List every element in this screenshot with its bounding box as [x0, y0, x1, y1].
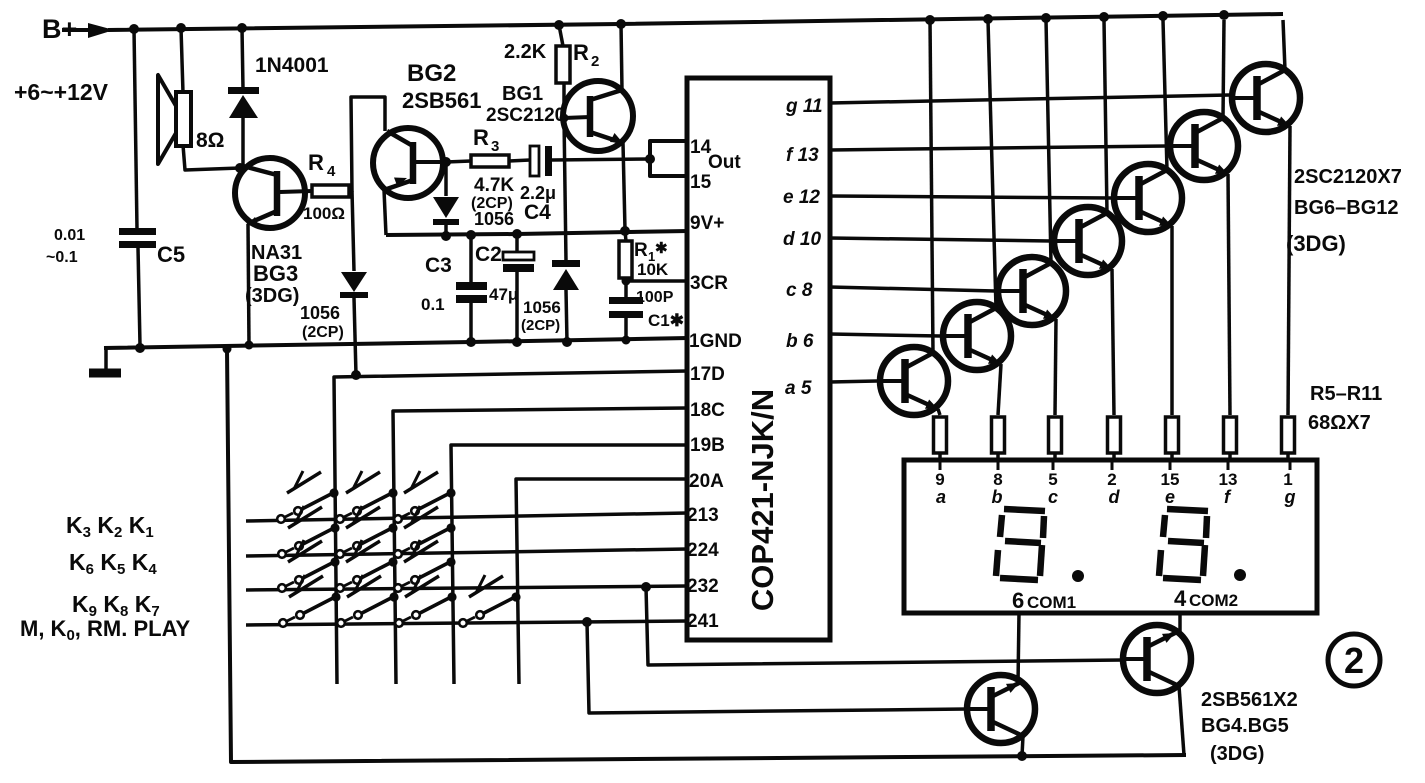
- switch RM: [395, 575, 456, 627]
- transistor BG3 NA31: [235, 158, 312, 345]
- wire collector of BG11: [1223, 20, 1224, 118]
- svg-text:2SB561: 2SB561: [402, 88, 482, 113]
- svg-text:232: 232: [687, 576, 719, 597]
- svg-text:2.2K: 2.2K: [504, 41, 547, 63]
- transistor BG6 2SC2120: [880, 347, 948, 415]
- switch M: [279, 575, 340, 627]
- transistor BG4 2SB561: [967, 675, 1035, 743]
- svg-text:2SC2120X7: 2SC2120X7: [1294, 166, 1402, 188]
- svg-text:4: 4: [1174, 586, 1187, 611]
- wire ground rail: [104, 338, 688, 348]
- transistor BG5 2SB561: [1123, 625, 1191, 693]
- wire collector of BG9: [1104, 20, 1107, 213]
- wire segment d base line: [830, 238, 1051, 241]
- wire C5 branch: [134, 29, 140, 345]
- wire 20A feed to key column: [516, 479, 687, 684]
- resistor R1* 10K: [619, 231, 669, 281]
- svg-text:(2CP): (2CP): [302, 324, 344, 341]
- transistor BG8 2SC2120: [998, 257, 1066, 325]
- svg-text:e 12: e 12: [783, 187, 820, 208]
- svg-text:f 13: f 13: [786, 145, 819, 166]
- display digit 2: [1159, 509, 1208, 580]
- transistor BG12 2SC2120: [1232, 64, 1300, 132]
- svg-text:3: 3: [491, 138, 499, 155]
- svg-text:1056: 1056: [523, 298, 561, 317]
- transistor BG10 2SC2120: [1114, 164, 1182, 232]
- svg-text:(3DG): (3DG): [245, 285, 299, 307]
- svg-text:(3DG): (3DG): [1286, 231, 1346, 256]
- svg-text:C3: C3: [425, 254, 452, 277]
- svg-text:241: 241: [687, 611, 719, 632]
- svg-text:2.2μ: 2.2μ: [520, 183, 556, 203]
- svg-text:~0.1: ~0.1: [46, 249, 78, 266]
- transistor BG1 2SC2120: [486, 24, 633, 230]
- wire emitter of BG10: [1170, 226, 1174, 415]
- wire collector of BG7: [988, 20, 996, 308]
- wire emitter of BG11: [1228, 174, 1230, 415]
- svg-text:3CR: 3CR: [690, 273, 728, 294]
- svg-text:100P: 100P: [636, 289, 674, 306]
- wire 1N4001 branch: [242, 28, 243, 168]
- capacitor C3 0.1: [421, 235, 487, 342]
- switch K8: [336, 540, 397, 592]
- svg-text:6: 6: [1012, 588, 1024, 613]
- switch K7: [278, 540, 339, 592]
- diode 1056 below BG2 base: [433, 162, 459, 236]
- svg-text:R5–R11: R5–R11: [1310, 383, 1382, 405]
- svg-text:c: c: [1048, 487, 1058, 507]
- node 9V+ junctions: [441, 226, 630, 241]
- svg-text:b: b: [992, 487, 1003, 507]
- wire emitter of BG6: [938, 409, 940, 415]
- svg-text:COP421-NJK/N: COP421-NJK/N: [745, 389, 780, 611]
- wire segment g base line: [830, 95, 1229, 103]
- node COM labels: [1012, 586, 1238, 613]
- switch K4: [278, 506, 339, 558]
- transistor BG9 2SC2120: [1054, 207, 1122, 275]
- svg-text:0.01: 0.01: [54, 227, 85, 244]
- svg-text:d 10: d 10: [783, 229, 821, 250]
- resistor R2 2.2K: [504, 25, 599, 118]
- svg-text:✱: ✱: [655, 240, 668, 257]
- svg-text:R: R: [634, 240, 648, 261]
- resistor R8 68ohm: [1108, 417, 1121, 461]
- wire COM1 to BG4: [1018, 613, 1019, 684]
- wire 18C feed to key column: [393, 408, 687, 684]
- wire collector of BG8: [1046, 20, 1051, 263]
- svg-text:2: 2: [1344, 640, 1364, 681]
- node figure number 2: [1328, 634, 1380, 686]
- svg-text:1GND: 1GND: [689, 331, 742, 352]
- wire emitter of BG12: [1288, 126, 1290, 415]
- transistor BG2 2SB561: [373, 60, 482, 235]
- diode 1N4001: [228, 54, 329, 118]
- capacitor C1* 100P: [609, 281, 684, 340]
- svg-text:R: R: [473, 125, 489, 150]
- svg-text:e: e: [1165, 487, 1175, 507]
- svg-text:2SB561X2: 2SB561X2: [1201, 689, 1298, 711]
- capacitor C4 2.2u: [520, 146, 650, 224]
- wire 19B feed to key column: [451, 445, 687, 684]
- display decimal point 2: [1234, 569, 1246, 581]
- svg-text:K3 K2 K1: K3 K2 K1: [66, 512, 154, 541]
- svg-text:BG2: BG2: [407, 60, 456, 87]
- wire left return and bottom rail: [227, 349, 1186, 762]
- wire key row 241: [246, 621, 687, 625]
- resistor R7 68ohm: [1049, 417, 1062, 461]
- node IC right pin labels: [783, 96, 823, 399]
- wire key row 213: [246, 513, 687, 521]
- resistor R9 68ohm: [1166, 417, 1179, 461]
- wire key row 224: [246, 549, 687, 556]
- switch K5: [336, 506, 397, 558]
- switch K1: [277, 471, 338, 523]
- node display pin numbers: [935, 470, 1295, 507]
- svg-text:b 6: b 6: [786, 331, 814, 352]
- wire emitter of BG9: [1112, 269, 1114, 415]
- node diode junction on 17D feed: [351, 370, 361, 380]
- transistor BG7 2SC2120: [943, 302, 1011, 370]
- svg-text:(3DG): (3DG): [1210, 743, 1264, 765]
- svg-text:2: 2: [591, 53, 599, 70]
- node key labels: [20, 512, 190, 644]
- node rail junctions: [129, 10, 1229, 34]
- wire segment a base line: [830, 381, 877, 382]
- svg-text:C5: C5: [157, 242, 185, 267]
- svg-text:BG1: BG1: [502, 83, 543, 105]
- wire speaker branch: [181, 28, 240, 170]
- wire segment b base line: [830, 334, 940, 336]
- node display pin stubs: [940, 460, 1290, 470]
- svg-text:20A: 20A: [689, 471, 724, 492]
- svg-text:c 8: c 8: [786, 280, 813, 301]
- svg-text:15: 15: [690, 172, 712, 193]
- switch K3: [394, 471, 455, 523]
- wire collector of BG12: [1283, 20, 1285, 70]
- capacitor C5: [46, 227, 185, 267]
- svg-text:213: 213: [687, 505, 719, 526]
- wire R4 to diode 1056: [352, 191, 354, 271]
- svg-text:M, K0, RM. PLAY: M, K0, RM. PLAY: [20, 616, 190, 644]
- ground symbol: [89, 348, 121, 373]
- svg-text:17D: 17D: [690, 364, 725, 385]
- node B+ supply label: [14, 14, 109, 105]
- svg-text:R: R: [308, 150, 324, 175]
- wire diode to 17D feed: [354, 298, 356, 375]
- resistor R5 68ohm: [934, 417, 947, 461]
- resistor R10 68ohm: [1224, 417, 1237, 461]
- speaker 8 ohm: [158, 75, 225, 164]
- capacitor C2 47u electrolytic: [475, 234, 534, 342]
- svg-text:1056: 1056: [300, 303, 340, 323]
- node BG4/BG5 labels: [1201, 689, 1298, 765]
- node pin14/15 OUT bracket: [645, 141, 688, 176]
- diode 1056 (2CP) center: [521, 260, 580, 342]
- svg-text:4: 4: [327, 163, 336, 180]
- svg-text:Out: Out: [708, 152, 741, 173]
- wire 9V+ rail: [386, 231, 688, 235]
- svg-text:19B: 19B: [690, 435, 725, 456]
- svg-text:a: a: [936, 487, 946, 507]
- wire emitter of BG7: [998, 364, 1001, 415]
- svg-text:R: R: [573, 40, 589, 65]
- svg-text:BG3: BG3: [253, 261, 298, 286]
- wire collector of BG10: [1163, 20, 1167, 170]
- resistor R11 68ohm: [1282, 417, 1295, 461]
- wire 241 to BG4 base: [582, 617, 967, 713]
- wire 232 to BG5 base: [641, 582, 1123, 665]
- node transistor group label 2SC2120X7 BG6-BG12 (3DG): [1286, 166, 1402, 256]
- wire segment e base line: [830, 196, 1111, 198]
- svg-text:C4: C4: [524, 201, 551, 224]
- switch K9: [394, 540, 455, 592]
- svg-text:COM2: COM2: [1189, 591, 1238, 610]
- svg-text:COM1: COM1: [1027, 593, 1076, 612]
- svg-text:10K: 10K: [637, 260, 669, 279]
- svg-text:+6~+12V: +6~+12V: [14, 79, 109, 105]
- resistor R3 4.7K: [446, 125, 530, 229]
- wire base bias to diode: [564, 118, 566, 261]
- wire collector of BG6: [930, 20, 933, 353]
- svg-text:2SC2120: 2SC2120: [486, 105, 565, 126]
- wire segment c base line: [830, 287, 995, 291]
- svg-text:a 5: a 5: [785, 378, 812, 399]
- svg-text:C2: C2: [475, 243, 502, 266]
- op-amp U1 COP421-NJK/N IC body: [687, 78, 830, 640]
- svg-text:100Ω: 100Ω: [303, 204, 345, 223]
- switch K6: [394, 506, 455, 558]
- node IC left pin labels: [687, 137, 742, 632]
- wire 3CR pin: [622, 277, 689, 286]
- svg-text:g 11: g 11: [785, 96, 823, 117]
- resistor R6 68ohm: [992, 417, 1005, 461]
- switch PLAY: [459, 575, 520, 627]
- svg-text:d: d: [1109, 487, 1121, 507]
- svg-text:BG4.BG5: BG4.BG5: [1201, 715, 1289, 737]
- node resistor group label R5-R11 68ohmX7: [1308, 383, 1382, 434]
- diode 1056 (2CP) lower-left: [300, 272, 368, 341]
- display decimal point 1: [1072, 570, 1084, 582]
- svg-text:4.7K: 4.7K: [474, 175, 514, 196]
- svg-text:47μ: 47μ: [489, 285, 518, 304]
- switch K0: [337, 575, 398, 627]
- node ground rail junctions: [135, 336, 631, 354]
- svg-text:0.1: 0.1: [421, 295, 445, 314]
- svg-text:1056: 1056: [474, 209, 514, 229]
- svg-text:8Ω: 8Ω: [196, 129, 225, 152]
- svg-text:BG6–BG12: BG6–BG12: [1294, 197, 1399, 219]
- resistor R4 100ohm: [303, 150, 349, 223]
- node BG2 base junction: [441, 157, 451, 167]
- node speaker/diode/BG3 junction: [235, 163, 245, 173]
- display digit 1: [996, 509, 1045, 580]
- svg-text:18C: 18C: [690, 400, 725, 421]
- svg-text:1N4001: 1N4001: [255, 54, 329, 77]
- wire 17D feed to key column: [334, 371, 687, 684]
- transistor BG11 2SC2120: [1170, 112, 1238, 180]
- wire emitter of BG8: [1055, 319, 1056, 415]
- svg-text:g: g: [1284, 487, 1296, 507]
- svg-text:9V+: 9V+: [690, 213, 724, 234]
- wire COM2 to BG5: [1178, 613, 1182, 634]
- svg-text:68ΩX7: 68ΩX7: [1308, 412, 1371, 434]
- svg-text:224: 224: [687, 540, 719, 561]
- wire R4 to BG2 collector loop: [349, 97, 385, 191]
- display module body: [904, 460, 1317, 613]
- wire B+ rail with arrow: [62, 14, 1283, 38]
- svg-text:(2CP): (2CP): [521, 317, 560, 334]
- wire key row 232: [246, 586, 687, 590]
- wire segment f base line: [830, 146, 1167, 150]
- wire BG4 collector to bottom rail: [1017, 736, 1027, 761]
- switch K2: [336, 471, 397, 523]
- svg-text:C1✱: C1✱: [648, 311, 684, 330]
- wire BG5 collector down to rail end: [1179, 686, 1184, 755]
- svg-text:K6 K5 K4: K6 K5 K4: [69, 549, 157, 578]
